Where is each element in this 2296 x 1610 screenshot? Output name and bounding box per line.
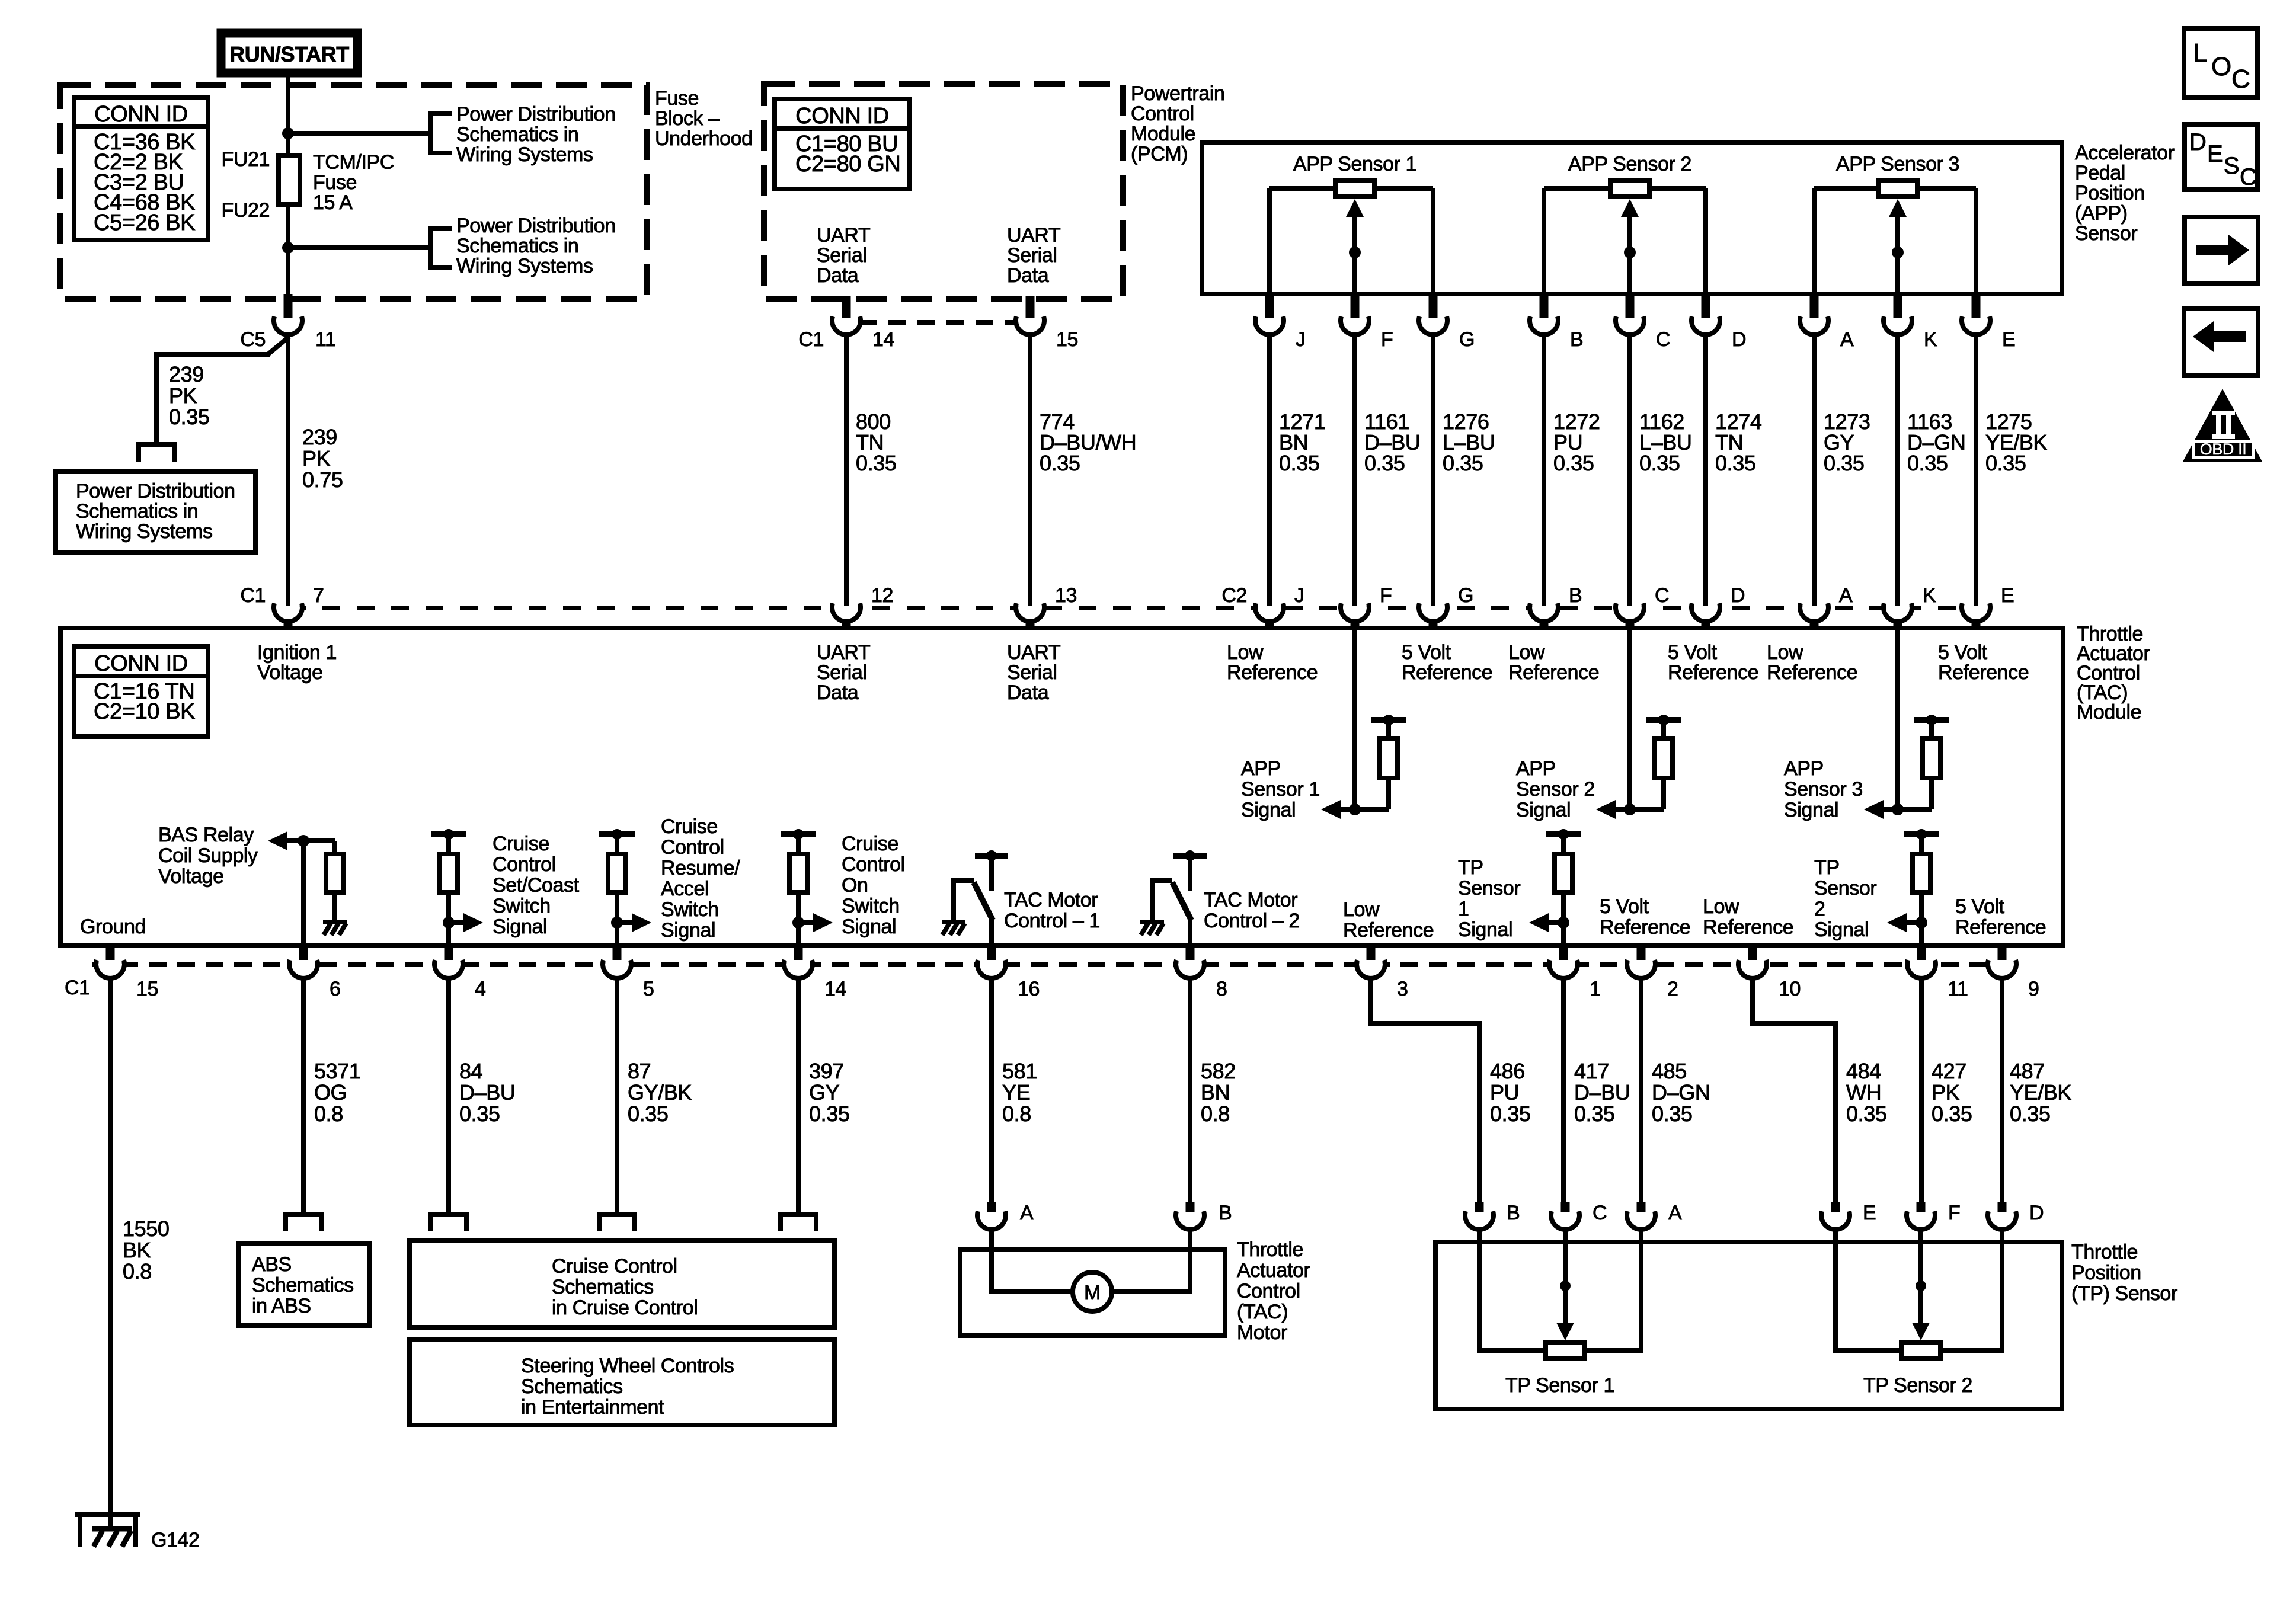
connector C5 pin 11 — [274, 316, 302, 335]
svg-text:(APP): (APP) — [2075, 202, 2128, 225]
svg-text:B: B — [1570, 328, 1583, 351]
svg-text:Signal: Signal — [1814, 918, 1869, 941]
svg-text:GY/BK: GY/BK — [628, 1080, 692, 1105]
svg-text:G: G — [1459, 328, 1475, 351]
svg-text:427: 427 — [1932, 1059, 1966, 1083]
svg-text:J: J — [1296, 328, 1306, 351]
ground chassis (TAC motor switch 2) — [1140, 922, 1164, 935]
svg-text:TAC Motor: TAC Motor — [1004, 889, 1098, 911]
svg-text:UART: UART — [817, 224, 870, 247]
off-page pointer cruise pin 4 — [428, 1214, 469, 1231]
svg-text:UART: UART — [1007, 641, 1060, 664]
Powertrain Control Module (PCM) dashed box — [764, 84, 1123, 299]
svg-text:14: 14 — [824, 978, 846, 1000]
APP Sensor 2 wiper arrow — [1621, 199, 1639, 293]
svg-text:A: A — [1839, 584, 1853, 607]
svg-text:Pedal: Pedal — [2075, 162, 2125, 184]
svg-text:417: 417 — [1574, 1059, 1609, 1083]
Cruise Control Schematics in Cruise Control box — [410, 1241, 834, 1327]
TP Sensor 2 wiper arrow — [1912, 1230, 1930, 1340]
svg-text:D: D — [2189, 129, 2207, 155]
svg-text:Data: Data — [817, 264, 859, 287]
wire tips into TAC top connectors — [288, 593, 1976, 606]
svg-text:F: F — [1381, 328, 1393, 351]
wire circuit 1276 — [1431, 335, 1435, 606]
svg-text:in Cruise Control: in Cruise Control — [552, 1297, 698, 1319]
svg-text:84: 84 — [459, 1059, 482, 1083]
svg-text:PU: PU — [1490, 1080, 1519, 1105]
svg-text:5 Volt: 5 Volt — [1668, 641, 1718, 664]
svg-text:G: G — [1458, 584, 1473, 607]
svg-text:C2=80 GN: C2=80 GN — [795, 152, 900, 177]
svg-text:Schematics in: Schematics in — [456, 123, 578, 146]
off-page pointer cruise pin 14 — [778, 1214, 818, 1231]
svg-text:Wiring Systems: Wiring Systems — [456, 255, 593, 277]
svg-text:Reference: Reference — [1508, 661, 1599, 684]
svg-text:TP: TP — [1458, 856, 1483, 879]
wire circuit 87 — [615, 979, 619, 1212]
svg-text:2: 2 — [1667, 978, 1678, 1000]
wire circuit 1161 — [1352, 335, 1357, 606]
svg-text:Voltage: Voltage — [158, 865, 224, 888]
svg-text:F: F — [1380, 584, 1392, 607]
arrow signal pin 4 set/coast — [449, 913, 483, 932]
svg-text:G142: G142 — [151, 1529, 200, 1551]
svg-text:Power Distribution: Power Distribution — [456, 215, 616, 237]
svg-text:ABS: ABS — [252, 1253, 292, 1276]
Throttle Position (TP) Sensor box — [1435, 1242, 2062, 1409]
svg-text:0.35: 0.35 — [1443, 451, 1483, 475]
svg-text:485: 485 — [1652, 1059, 1687, 1083]
svg-text:Low: Low — [1767, 641, 1803, 664]
wire circuit 486 (pin 3 jog) — [1371, 979, 1479, 1203]
svg-text:397: 397 — [809, 1059, 844, 1083]
off-page pointer cruise pin 5 — [597, 1214, 637, 1231]
svg-text:B: B — [1569, 584, 1582, 607]
svg-text:15: 15 — [136, 978, 158, 1000]
connector TAC top pin B — [1530, 596, 1558, 629]
svg-text:YE: YE — [1002, 1080, 1030, 1105]
APP sensor 2 pull-up resistor — [1646, 715, 1681, 809]
svg-text:0.8: 0.8 — [1201, 1102, 1230, 1126]
svg-text:GY: GY — [809, 1080, 840, 1105]
wire circuit 1162 — [1627, 335, 1632, 606]
svg-text:0.35: 0.35 — [1907, 451, 1948, 475]
svg-text:0.35: 0.35 — [1824, 451, 1864, 475]
svg-text:Wiring Systems: Wiring Systems — [456, 143, 593, 166]
svg-text:Reference: Reference — [1703, 916, 1793, 939]
svg-text:Control: Control — [1237, 1280, 1300, 1302]
svg-text:Reference: Reference — [1955, 916, 2046, 939]
connector TP sensor pin E — [1821, 1202, 1850, 1230]
wire C5 to C1 (circuit 239) — [286, 335, 290, 606]
svg-text:0.35: 0.35 — [169, 405, 209, 429]
svg-text:Sensor: Sensor — [1814, 877, 1876, 900]
svg-text:Control: Control — [493, 853, 556, 876]
CONN ID table (TAC module) — [74, 646, 208, 737]
svg-text:B: B — [1219, 1202, 1232, 1224]
svg-text:8: 8 — [1216, 978, 1227, 1000]
svg-text:(PCM): (PCM) — [1131, 143, 1188, 165]
svg-text:4: 4 — [475, 978, 486, 1000]
svg-text:0.35: 0.35 — [809, 1102, 849, 1126]
svg-text:Reference: Reference — [1668, 661, 1758, 684]
APP Sensor 1 wiper arrow — [1346, 199, 1364, 293]
connector TAC motor pin A — [977, 1202, 1006, 1230]
connector TAC bottom pin 10 — [1738, 945, 1767, 978]
wire circuit 581 — [989, 979, 994, 1203]
svg-text:Control: Control — [842, 853, 905, 876]
connector pin 14 top row — [832, 296, 861, 335]
svg-text:Powertrain: Powertrain — [1131, 82, 1225, 105]
svg-text:Power Distribution: Power Distribution — [456, 103, 616, 126]
svg-text:OBD II: OBD II — [2200, 440, 2247, 458]
connector TAC top pin J — [1255, 596, 1284, 629]
svg-text:D: D — [2029, 1202, 2044, 1224]
CONN ID table (PCM) — [775, 99, 910, 189]
svg-text:Underhood: Underhood — [655, 127, 753, 150]
svg-text:TP Sensor 1: TP Sensor 1 — [1505, 1374, 1614, 1397]
svg-text:C5=26 BK: C5=26 BK — [94, 210, 195, 235]
svg-text:Accelerator: Accelerator — [2075, 142, 2175, 164]
connector pin C top row — [1616, 292, 1644, 335]
svg-text:Reference: Reference — [1343, 919, 1434, 942]
svg-text:Cruise: Cruise — [493, 833, 549, 855]
svg-text:Serial: Serial — [1007, 244, 1057, 267]
svg-text:0.35: 0.35 — [459, 1102, 500, 1126]
svg-text:Cruise Control: Cruise Control — [552, 1255, 677, 1278]
wire circuit 774 — [1028, 335, 1032, 606]
wire circuit 1163 — [1895, 335, 1900, 606]
Throttle Actuator Control (TAC) Module box — [60, 628, 2063, 946]
dashed connector line above TAC module — [288, 606, 1976, 610]
svg-text:0.35: 0.35 — [1574, 1102, 1614, 1126]
svg-text:C: C — [2240, 164, 2257, 190]
svg-text:Sensor 3: Sensor 3 — [1784, 778, 1863, 801]
svg-text:C1: C1 — [65, 977, 90, 999]
svg-text:487: 487 — [2010, 1059, 2045, 1083]
svg-text:Ignition 1: Ignition 1 — [257, 641, 337, 664]
svg-text:CONN ID: CONN ID — [94, 651, 188, 676]
connector TAC bottom pin 11 — [1907, 945, 1936, 978]
wire circuit 485 — [1639, 979, 1643, 1203]
svg-text:Serial: Serial — [817, 244, 867, 267]
arrow signal pin 11 tp sensor 2 — [1887, 913, 1921, 932]
connector TAC bottom pin 5 — [603, 945, 631, 978]
connector TP sensor pin D — [1988, 1202, 2016, 1230]
wire circuit 1271 — [1267, 335, 1272, 606]
svg-text:0.35: 0.35 — [1932, 1102, 1972, 1126]
arrow APP sensor 1 signal — [1321, 800, 1341, 819]
svg-text:Fuse: Fuse — [655, 87, 699, 110]
svg-text:11: 11 — [1948, 978, 1968, 1000]
svg-text:YE/BK: YE/BK — [2010, 1080, 2071, 1105]
svg-text:Position: Position — [2075, 182, 2145, 204]
svg-text:Signal: Signal — [1458, 918, 1512, 941]
DESC legend box — [2185, 124, 2257, 190]
svg-text:E: E — [2002, 328, 2015, 351]
Steering Wheel Controls Schematics in Entertainment box — [410, 1340, 834, 1425]
forward arrow legend box — [2185, 217, 2258, 283]
svg-text:87: 87 — [628, 1059, 651, 1083]
wire BAS relay junction to pin 6 — [301, 841, 306, 943]
ground G142 — [75, 1515, 140, 1547]
wire APP sensor 2 signal junction — [1615, 804, 1664, 815]
svg-text:Schematics: Schematics — [552, 1276, 654, 1298]
wire circuit 1274 — [1703, 335, 1708, 606]
svg-text:Low: Low — [1343, 898, 1380, 921]
svg-text:Serial: Serial — [817, 661, 867, 684]
resistor assembly pin 4 set/coast — [431, 829, 466, 943]
connector TAC top pin C — [1616, 596, 1644, 629]
svg-text:5 Volt: 5 Volt — [1600, 895, 1649, 918]
svg-text:486: 486 — [1490, 1059, 1525, 1083]
CONN ID table (fuse block) — [74, 97, 208, 240]
svg-text:UART: UART — [817, 641, 870, 664]
off-page pointer power distribution 2 — [431, 228, 452, 267]
svg-text:Sensor 1: Sensor 1 — [1241, 778, 1320, 801]
ground chassis (BAS resistor) — [323, 922, 347, 935]
svg-text:Data: Data — [1007, 264, 1049, 287]
TP Sensor 1 wiper arrow — [1556, 1230, 1574, 1340]
svg-text:Switch: Switch — [493, 895, 551, 917]
svg-text:TCM/IPC: TCM/IPC — [313, 151, 394, 174]
connector pin K top row — [1884, 292, 1912, 335]
wire circuit 582 — [1188, 979, 1192, 1203]
wire circuit 487 — [2000, 979, 2004, 1203]
off-page pointer to power distribution box — [136, 444, 177, 462]
svg-text:16: 16 — [1018, 978, 1040, 1000]
RUN/START ignition source box — [221, 33, 357, 73]
connector TAC top pin 12 — [832, 596, 861, 629]
APP Sensor 1 potentiometer — [1269, 180, 1433, 293]
svg-text:Power Distribution: Power Distribution — [76, 480, 235, 502]
connector TP sensor pin C — [1551, 1202, 1579, 1230]
svg-text:14: 14 — [872, 328, 894, 351]
svg-text:Position: Position — [2071, 1262, 2141, 1284]
connector TAC bottom pin 1 — [1549, 945, 1578, 978]
svg-text:5 Volt: 5 Volt — [1402, 641, 1451, 664]
svg-text:Throttle: Throttle — [1237, 1238, 1303, 1261]
connector pin F top row — [1341, 292, 1369, 335]
APP sensor 1 pull-up resistor — [1371, 715, 1406, 809]
arrow APP sensor 2 signal — [1596, 800, 1616, 819]
svg-text:9: 9 — [2028, 978, 2039, 1000]
resistor assembly pin 14 cruise on — [781, 829, 816, 943]
svg-text:BAS Relay: BAS Relay — [158, 824, 254, 846]
svg-text:D: D — [1731, 584, 1745, 607]
svg-text:On: On — [842, 874, 868, 897]
connector TAC top pin 13 — [1016, 596, 1044, 629]
svg-text:0.35: 0.35 — [856, 451, 896, 475]
svg-text:Throttle: Throttle — [2071, 1241, 2138, 1263]
svg-text:CONN ID: CONN ID — [795, 104, 889, 129]
wire circuit 397 — [796, 979, 801, 1212]
svg-text:Data: Data — [1007, 681, 1049, 704]
svg-text:BN: BN — [1201, 1080, 1230, 1105]
connector TAC bottom pin 3 — [1357, 945, 1385, 978]
svg-text:581: 581 — [1002, 1059, 1037, 1083]
svg-text:Control: Control — [1131, 103, 1194, 125]
LOC legend box — [2184, 28, 2257, 97]
APP Sensor 3 potentiometer — [1814, 180, 1976, 293]
svg-text:F: F — [1948, 1202, 1960, 1224]
svg-text:APP Sensor 2: APP Sensor 2 — [1568, 153, 1691, 175]
svg-text:Low: Low — [1703, 895, 1739, 918]
svg-text:Switch: Switch — [661, 898, 719, 921]
svg-text:APP: APP — [1784, 757, 1824, 780]
svg-text:Signal: Signal — [1516, 799, 1571, 821]
connector pin A top row — [1800, 292, 1828, 335]
svg-text:0.35: 0.35 — [1985, 451, 2026, 475]
svg-text:C: C — [2231, 65, 2250, 94]
svg-text:K: K — [1924, 328, 1937, 351]
svg-text:3: 3 — [1397, 978, 1408, 1000]
svg-text:0.35: 0.35 — [1490, 1102, 1530, 1126]
wire to power distribution pointer 1 — [288, 131, 431, 136]
TAC motor control switch 1 — [954, 850, 1008, 943]
connector pin J top row — [1255, 292, 1284, 335]
wire 5V reference feed 3 inside TAC — [1895, 630, 1900, 809]
svg-text:6: 6 — [330, 978, 341, 1000]
svg-text:Block –: Block – — [655, 107, 720, 130]
svg-text:APP: APP — [1516, 757, 1556, 780]
off-page pointer to ABS — [283, 1214, 324, 1231]
svg-text:Accel: Accel — [661, 878, 709, 900]
wire 5V reference feed 1 inside TAC — [1352, 630, 1357, 809]
svg-text:PK: PK — [1932, 1080, 1960, 1105]
wire APP sensor 3 signal junction — [1883, 804, 1932, 815]
svg-text:RUN/START: RUN/START — [229, 42, 349, 66]
connector TAC top pin F — [1341, 596, 1369, 629]
connector TAC top pin G — [1419, 596, 1447, 629]
svg-text:B: B — [1507, 1202, 1520, 1224]
wire RUN/START to fuse FU21 — [286, 77, 290, 157]
svg-text:0.35: 0.35 — [2010, 1102, 2050, 1126]
svg-text:PK: PK — [302, 446, 331, 470]
svg-text:5 Volt: 5 Volt — [1955, 895, 2005, 918]
svg-text:Module: Module — [1131, 123, 1195, 145]
arrow signal pin 14 cruise on — [798, 913, 833, 932]
off-page pointer power distribution 1 — [431, 114, 452, 153]
svg-text:0.35: 0.35 — [1364, 451, 1405, 475]
back arrow legend box — [2184, 308, 2258, 376]
svg-text:E: E — [1863, 1202, 1876, 1224]
svg-text:1550: 1550 — [123, 1217, 170, 1241]
svg-text:D–BU: D–BU — [459, 1080, 515, 1105]
connector TAC bottom pin 4 — [434, 945, 463, 978]
svg-text:PK: PK — [169, 383, 197, 408]
svg-text:15: 15 — [1056, 328, 1078, 351]
connector TAC top pin K — [1884, 596, 1912, 629]
svg-text:TP: TP — [1814, 856, 1840, 879]
svg-text:0.35: 0.35 — [628, 1102, 668, 1126]
Power Distribution Schematics in Wiring Systems box — [56, 472, 255, 552]
svg-text:13: 13 — [1055, 584, 1077, 607]
svg-text:5 Volt: 5 Volt — [1938, 641, 1988, 664]
connector TAC bottom pin 15 — [96, 945, 124, 978]
connector TAC top pin E — [1962, 596, 1990, 629]
svg-text:S: S — [2224, 153, 2239, 179]
connector TAC top pin A — [1800, 596, 1828, 629]
svg-text:Voltage: Voltage — [257, 661, 323, 684]
wire circuit 1275 — [1974, 335, 1978, 606]
connector pin G top row — [1419, 292, 1447, 335]
APP sensor 3 pull-up resistor — [1914, 715, 1949, 809]
fuse FU21/FU22 TCM/IPC 15 A — [279, 156, 300, 204]
svg-text:J: J — [1294, 584, 1304, 607]
resistor assembly pin 5 resume/accel — [599, 829, 635, 943]
svg-text:Switch: Switch — [842, 895, 900, 917]
svg-text:APP Sensor 1: APP Sensor 1 — [1293, 153, 1416, 175]
connector TAC bottom pin 14 — [784, 945, 813, 978]
svg-text:239: 239 — [169, 362, 204, 386]
svg-text:C: C — [1593, 1202, 1607, 1224]
resistor assembly pin 1 tp sensor 1 — [1546, 829, 1581, 943]
svg-text:2: 2 — [1814, 898, 1825, 920]
dashed connector line between PCM pins 14 and 15 — [859, 320, 1017, 325]
svg-text:0.8: 0.8 — [123, 1259, 152, 1283]
ABS Schematics in ABS box — [238, 1243, 369, 1326]
svg-text:11: 11 — [315, 328, 336, 351]
svg-text:Reference: Reference — [1402, 661, 1492, 684]
svg-text:L: L — [2193, 39, 2207, 68]
svg-text:0.8: 0.8 — [1002, 1102, 1031, 1126]
svg-text:UART: UART — [1007, 224, 1060, 247]
svg-text:D: D — [1732, 328, 1746, 351]
svg-text:A: A — [1020, 1202, 1034, 1224]
wire circuit 427 — [1919, 979, 1924, 1203]
svg-text:Control – 1: Control – 1 — [1004, 910, 1100, 932]
connector pin B top row — [1530, 292, 1558, 335]
svg-text:Control: Control — [661, 836, 724, 859]
connector pin E top row — [1962, 292, 1990, 335]
svg-text:Steering Wheel Controls: Steering Wheel Controls — [521, 1355, 734, 1377]
connector TP sensor pin F — [1907, 1202, 1935, 1230]
junction dot FU21 feed — [282, 127, 294, 139]
connector TAC bottom pin 6 — [289, 945, 318, 978]
svg-text:0.35: 0.35 — [1715, 451, 1755, 475]
svg-text:0.75: 0.75 — [302, 468, 343, 492]
svg-text:C5: C5 — [240, 328, 266, 351]
connector TAC bottom pin 8 — [1176, 945, 1204, 978]
svg-text:239: 239 — [302, 425, 337, 449]
svg-text:10: 10 — [1779, 978, 1801, 1000]
arrow signal pin 5 resume/accel — [617, 913, 651, 932]
connector TAC bottom pin 9 — [1988, 945, 2016, 978]
svg-text:TAC Motor: TAC Motor — [1204, 889, 1297, 911]
svg-text:7: 7 — [313, 584, 324, 607]
connector pin D top row — [1691, 292, 1720, 335]
arrow APP sensor 3 signal — [1864, 800, 1884, 819]
svg-text:484: 484 — [1846, 1059, 1881, 1083]
wire circuit 84 — [446, 979, 451, 1212]
svg-text:1: 1 — [1458, 898, 1469, 920]
connector TAC motor pin B — [1176, 1202, 1204, 1230]
svg-text:BK: BK — [123, 1238, 151, 1262]
svg-text:O: O — [2211, 52, 2231, 81]
svg-text:Sensor: Sensor — [2075, 222, 2137, 245]
svg-text:OG: OG — [314, 1080, 347, 1105]
svg-text:5371: 5371 — [314, 1059, 361, 1083]
wire circuit 1273 — [1812, 335, 1817, 606]
svg-text:WH: WH — [1846, 1080, 1881, 1105]
APP Sensor 2 potentiometer — [1544, 180, 1706, 293]
svg-text:E: E — [2001, 584, 2014, 607]
wire circuit 800 — [844, 335, 849, 606]
svg-text:Signal: Signal — [1784, 799, 1838, 821]
svg-text:Fuse: Fuse — [313, 171, 357, 194]
